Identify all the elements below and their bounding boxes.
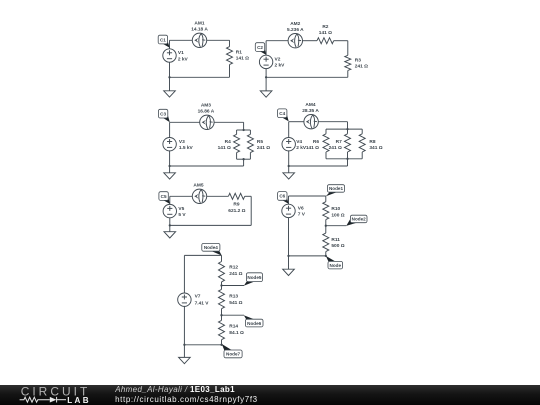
junction Node6 [220,314,222,316]
resistor R9 [228,193,244,199]
svg-text:Node5: Node5 [247,275,261,280]
resistor R14 [219,320,225,339]
wire [289,165,348,167]
svg-text:AM5: AM5 [193,182,203,188]
svg-text:16.86 A: 16.86 A [198,108,215,114]
voltage source V6 [282,204,295,217]
wire [347,129,349,134]
svg-text:R8: R8 [369,139,375,145]
svg-text:R4: R4 [225,139,231,145]
wire [184,254,221,256]
svg-text:AM3: AM3 [201,103,211,109]
junction Node2 [325,225,327,227]
svg-text:C3: C3 [160,111,166,116]
wire [183,255,185,292]
node tag C6 [278,192,289,204]
svg-text:241 Ω: 241 Ω [229,271,242,277]
logo diode symbol [50,397,57,403]
voltage source V7 [178,293,191,306]
svg-text:Node: Node [330,263,342,268]
junction Node5 [220,284,222,286]
wire [265,69,267,78]
wire [170,195,193,197]
svg-text:V5: V5 [178,206,184,212]
ammeter AM5 [192,189,206,203]
wire [318,121,347,123]
wire [221,282,223,286]
wire [170,121,200,123]
node tag Node6 [244,315,263,327]
svg-text:R6: R6 [313,139,319,145]
wire [334,40,348,42]
voltage source V2 [259,55,272,68]
svg-text:AM4: AM4 [305,102,315,108]
wire [214,121,244,123]
svg-text:V6: V6 [298,206,304,212]
junction [168,76,170,78]
svg-text:R13: R13 [229,294,238,300]
node tag C3 [158,109,169,122]
junction [346,128,348,130]
voltage source V1 [163,49,176,62]
svg-text:84.1 Ω: 84.1 Ω [229,330,244,336]
svg-text:100 Ω: 100 Ω [331,212,344,218]
svg-text:14.18 A: 14.18 A [191,26,208,32]
resistor R11 [323,233,329,252]
wire [169,62,171,77]
svg-text:2 kV: 2 kV [178,56,189,62]
wire [229,65,231,78]
wire [184,344,221,346]
svg-text:141 Ω: 141 Ω [319,30,332,36]
wire [288,218,290,256]
wire [169,218,171,226]
wire to ground [288,256,290,269]
node tag Node7 [222,344,242,358]
logo resistor symbol [20,397,50,402]
parallel bottom bus [326,158,362,160]
wire [207,195,229,197]
ground [283,173,295,179]
wire [221,309,223,316]
svg-text:R10: R10 [331,206,340,212]
svg-text:2 kV: 2 kV [275,63,286,69]
resistor R4 [234,134,240,152]
svg-text:R3: R3 [355,58,361,64]
svg-text:V1: V1 [178,50,184,56]
wire to ground [183,345,185,358]
wire [221,286,223,290]
svg-text:C2: C2 [257,45,263,50]
svg-text:R1: R1 [236,49,242,55]
resistor R7 [345,134,351,152]
svg-text:R14: R14 [229,324,238,330]
svg-text:R2: R2 [322,24,328,30]
junction [288,165,290,167]
junction [183,344,185,346]
wire [325,129,327,134]
svg-text:541 Ω: 541 Ω [229,300,242,306]
wire [325,152,327,159]
svg-text:28.35 A: 28.35 A [302,108,319,114]
wire to Node2 tag [326,225,347,227]
wire [325,226,327,233]
svg-text:241 Ω: 241 Ω [355,64,368,70]
parallel top bus [326,128,362,130]
svg-text:AM1: AM1 [194,21,204,27]
ground [164,173,176,179]
svg-text:R5: R5 [257,139,263,145]
wire [229,40,231,46]
junction Node7 [220,344,222,346]
wire [361,129,363,134]
svg-text:R11: R11 [331,237,340,243]
wire [169,196,171,204]
wire to Node5 tag [222,285,245,287]
resistor R10 [323,202,329,220]
resistor R3 [345,55,351,70]
wire [289,255,326,257]
svg-text:141 Ω: 141 Ω [218,145,231,151]
wire [170,224,251,226]
wire [265,41,267,56]
ammeter AM4 [304,115,318,129]
wire [170,76,230,78]
wire [325,196,327,202]
wire [249,153,251,160]
svg-text:Node1: Node1 [329,186,343,191]
wire [249,130,251,134]
wire [266,40,288,42]
junction [242,129,244,131]
svg-text:341 Ω: 341 Ω [369,145,382,151]
wire [347,41,349,56]
svg-text:V2: V2 [275,57,281,63]
wire [236,130,238,134]
parallel top bus [237,129,251,131]
wire [303,40,318,42]
node tag Node2 [346,215,367,226]
svg-text:7 V: 7 V [298,212,306,218]
junction Node [325,255,327,257]
wire [347,152,349,159]
wire to ground [265,77,267,91]
wire to ground [169,166,171,173]
svg-text:Ahmed_Al-Hayali / 1E03_Lab1: Ahmed_Al-Hayali / 1E03_Lab1 [114,385,235,394]
svg-text:C4: C4 [279,111,285,116]
svg-text:141 Ω: 141 Ω [236,56,249,62]
wire [169,122,171,137]
junction [346,158,348,160]
ground [283,269,295,275]
wire [169,151,171,166]
wire [325,220,327,226]
ground [260,91,272,97]
wire [243,122,245,130]
svg-text:LAB: LAB [67,396,91,405]
svg-text:Node6: Node6 [247,321,261,326]
wire [288,151,290,166]
svg-text:V4: V4 [296,139,302,145]
resistor R1 [227,47,233,65]
ground [164,232,176,238]
node tag Node4 [202,243,222,255]
svg-text:R9: R9 [233,202,239,208]
svg-text:241 Ω: 241 Ω [257,145,270,151]
wire to ground [169,225,171,231]
svg-text:C1: C1 [160,37,166,42]
svg-text:241 Ω: 241 Ω [329,145,342,151]
wire [243,159,245,166]
node tag C5 [159,192,170,204]
svg-text:7.41 V: 7.41 V [195,301,210,307]
svg-text:1.5 kV: 1.5 kV [179,145,194,151]
svg-text:V7: V7 [195,294,201,300]
wire [221,315,223,320]
ground [179,357,191,363]
wire [347,122,349,129]
wire [221,255,223,261]
wire [288,122,290,138]
resistor R2 [317,38,334,44]
wire [221,340,223,345]
wire [266,76,348,78]
wire [361,152,363,159]
node tag Node5 [244,273,263,286]
ammeter AM3 [200,115,214,129]
resistor R12 [219,262,225,282]
junction [242,158,244,160]
resistor R6 [323,134,329,152]
wire [245,195,252,197]
ground [164,91,176,97]
svg-text:Node2: Node2 [352,217,366,222]
svg-text:V3: V3 [179,139,185,145]
junction [168,165,170,167]
node tag C2 [255,43,266,55]
wire to ground [169,77,171,91]
svg-text:500 Ω: 500 Ω [331,243,344,249]
resistor R13 [219,289,225,308]
junction [169,224,171,226]
wire [325,252,327,256]
wire [170,165,244,167]
svg-text:R12: R12 [229,265,238,271]
wire [347,71,349,78]
voltage source V5 [163,204,176,217]
junction [265,76,267,78]
wire [236,153,238,160]
svg-text:http://circuitlab.com/cs48rnpy: http://circuitlab.com/cs48rnpyfy7f3 [115,395,258,404]
voltage source V4 [282,138,295,151]
wire [170,39,193,41]
svg-text:Node4: Node4 [204,245,218,250]
wire [347,159,349,166]
node tag C4 [278,109,289,122]
svg-text:AM2: AM2 [290,21,300,27]
node tag Node1 [326,185,345,197]
wire [288,196,290,204]
resistor R5 [247,134,253,152]
ammeter AM2 [288,34,302,48]
node tag C1 [158,35,170,48]
wire [207,39,230,41]
svg-text:R7: R7 [336,139,342,145]
svg-text:2 kV: 2 kV [296,145,307,151]
wire [183,306,185,344]
wire to ground [288,166,290,173]
svg-text:C6: C6 [279,194,285,199]
ammeter AM1 [192,33,206,47]
resistor R8 [359,134,365,152]
node tag Node [326,256,343,269]
svg-text:Node7: Node7 [226,352,240,357]
wire [169,40,171,49]
parallel bottom bus [237,158,251,160]
svg-text:141 Ω: 141 Ω [306,145,319,151]
svg-text:5 V: 5 V [178,212,186,218]
wire to Node6 tag [222,314,245,316]
svg-text:5.236 A: 5.236 A [287,27,304,33]
wire [289,195,326,197]
svg-text:C5: C5 [161,194,167,199]
wire [250,196,252,225]
junction [287,255,289,257]
svg-text:621.2 Ω: 621.2 Ω [228,208,245,214]
wire [289,121,304,123]
voltage source V3 [163,138,176,151]
